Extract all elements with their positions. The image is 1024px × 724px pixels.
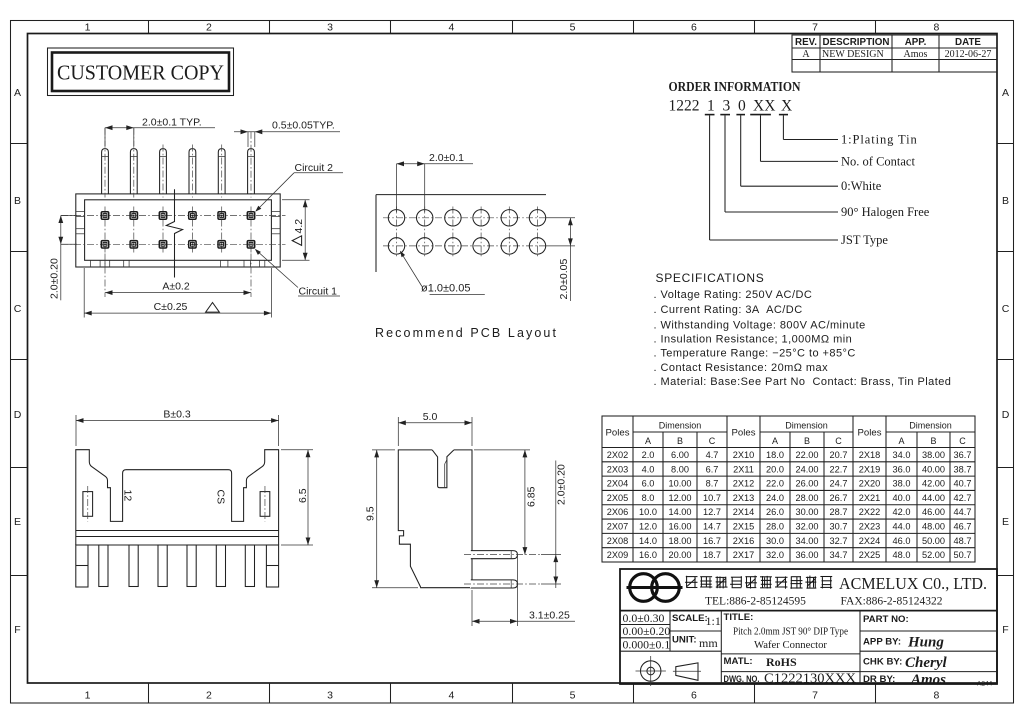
svg-text:28.7: 28.7 xyxy=(830,507,848,517)
svg-text:C1222130XXX: C1222130XXX xyxy=(764,671,857,686)
svg-text:2X16: 2X16 xyxy=(733,536,754,546)
svg-text:48.7: 48.7 xyxy=(954,536,972,546)
svg-text:38.00: 38.00 xyxy=(922,450,945,460)
svg-text:1: 1 xyxy=(85,22,91,34)
svg-text:2X15: 2X15 xyxy=(733,522,754,532)
company chinese name (pseudo glyph strokes) xyxy=(685,576,697,588)
svg-text:52.00: 52.00 xyxy=(922,550,945,560)
top view: connector body outer outline xyxy=(76,194,280,267)
top view: bottom edge notches xyxy=(89,260,91,267)
svg-text:Recommend PCB Layout: Recommend PCB Layout xyxy=(375,326,558,340)
triangle symbol for 4.2 xyxy=(292,236,301,246)
svg-text:32.7: 32.7 xyxy=(830,536,848,546)
svg-text:FAX:886-2-85124322: FAX:886-2-85124322 xyxy=(841,596,943,608)
svg-text:TITLE:: TITLE: xyxy=(724,612,754,623)
svg-text:3: 3 xyxy=(327,22,333,34)
svg-text:0.000±0.1: 0.000±0.1 xyxy=(623,638,671,652)
company logo: two overlapping circles xyxy=(630,574,658,602)
svg-text:1:1: 1:1 xyxy=(706,614,721,628)
svg-text:9.5: 9.5 xyxy=(365,506,377,521)
svg-text:2X14: 2X14 xyxy=(733,507,754,517)
svg-text:Poles: Poles xyxy=(858,427,882,438)
svg-text:2X03: 2X03 xyxy=(607,464,628,474)
top view: break line zigzag xyxy=(166,189,182,277)
svg-text:22.7: 22.7 xyxy=(830,464,848,474)
top view: left wall latch slot ticks xyxy=(76,210,85,212)
border zone column ticks top xyxy=(148,20,150,33)
svg-text:B: B xyxy=(14,195,21,207)
svg-text:APP BY:: APP BY: xyxy=(863,636,901,647)
pcb layout: 12 drill holes xyxy=(388,210,404,226)
dimension 2.0±0.20 (row spacing, left) xyxy=(60,216,62,301)
svg-text:0: 0 xyxy=(738,98,746,115)
svg-text:1:Plating Tin: 1:Plating Tin xyxy=(841,133,918,147)
svg-text:X: X xyxy=(781,98,792,115)
svg-text:44.00: 44.00 xyxy=(922,493,945,503)
svg-text:ORDER INFORMATION: ORDER INFORMATION xyxy=(669,79,801,94)
svg-text:22.00: 22.00 xyxy=(796,450,819,460)
title block outer frame xyxy=(620,569,997,684)
svg-text:32.0: 32.0 xyxy=(766,550,784,560)
svg-text:A±0.2: A±0.2 xyxy=(162,281,190,293)
svg-text:B: B xyxy=(677,436,683,446)
svg-text:8: 8 xyxy=(933,22,939,34)
svg-text:. Withstanding Voltage: 800V A: . Withstanding Voltage: 800V AC/minute xyxy=(654,320,866,332)
svg-text:12.0: 12.0 xyxy=(639,522,657,532)
svg-text:44.0: 44.0 xyxy=(893,522,911,532)
svg-text:30.0: 30.0 xyxy=(766,536,784,546)
svg-text:2X12: 2X12 xyxy=(733,479,754,489)
svg-text:42.7: 42.7 xyxy=(954,493,972,503)
svg-text:2X19: 2X19 xyxy=(859,464,880,474)
svg-text:18.00: 18.00 xyxy=(669,536,692,546)
svg-text:46.7: 46.7 xyxy=(954,522,972,532)
front view: left mount boss xyxy=(76,545,88,587)
svg-text:24.00: 24.00 xyxy=(796,464,819,474)
svg-text:D: D xyxy=(1002,409,1010,421)
border zone column ticks bottom xyxy=(148,683,150,703)
svg-text:10.00: 10.00 xyxy=(669,479,692,489)
svg-text:2X21: 2X21 xyxy=(859,493,880,503)
svg-text:20.7: 20.7 xyxy=(830,450,848,460)
svg-text:E: E xyxy=(1002,516,1009,528)
svg-text:Amos: Amos xyxy=(910,672,946,688)
svg-text:B: B xyxy=(804,436,810,446)
svg-text:C: C xyxy=(709,436,716,446)
svg-text:3: 3 xyxy=(723,98,731,115)
svg-text:2X06: 2X06 xyxy=(607,507,628,517)
border zone row ticks left xyxy=(10,143,27,145)
svg-text:5.0: 5.0 xyxy=(423,411,438,423)
svg-text:CHK BY:: CHK BY: xyxy=(863,657,902,668)
svg-text:34.7: 34.7 xyxy=(830,550,848,560)
side view: body profile outline xyxy=(398,450,472,588)
svg-text:C±0.25: C±0.25 xyxy=(154,301,188,313)
title block grid lines xyxy=(620,610,997,612)
dimension C±0.25 xyxy=(84,312,271,314)
svg-text:XX: XX xyxy=(753,98,775,115)
svg-text:50.00: 50.00 xyxy=(922,536,945,546)
svg-text:12: 12 xyxy=(122,490,134,502)
svg-text:B: B xyxy=(1002,195,1009,207)
svg-text:50.7: 50.7 xyxy=(954,550,972,560)
svg-text:Cheryl: Cheryl xyxy=(905,655,948,671)
side view: latch slot xyxy=(432,450,454,488)
svg-text:B: B xyxy=(930,436,936,446)
svg-text:A: A xyxy=(14,87,21,99)
svg-text:24.0: 24.0 xyxy=(766,493,784,503)
svg-text:46.0: 46.0 xyxy=(893,536,911,546)
svg-text:6.0: 6.0 xyxy=(642,479,655,489)
svg-text:2X20: 2X20 xyxy=(859,479,880,489)
side view: upper pin xyxy=(470,551,518,559)
svg-text:A244: A244 xyxy=(977,681,993,688)
svg-text:0.00±0.20: 0.00±0.20 xyxy=(623,624,671,638)
svg-text:A: A xyxy=(898,436,904,446)
svg-text:8: 8 xyxy=(933,690,939,702)
svg-text:3.1±0.25: 3.1±0.25 xyxy=(529,610,570,622)
svg-text:2012-06-27: 2012-06-27 xyxy=(945,49,992,60)
svg-text:SPECIFICATIONS: SPECIFICATIONS xyxy=(656,271,765,285)
dimension 5.0 (side width) xyxy=(398,422,472,424)
svg-text:7: 7 xyxy=(812,690,818,702)
callout line: 1 -> JST Type xyxy=(709,115,711,240)
svg-text:. Insulation Resistance; 1,000: . Insulation Resistance; 1,000MΩ min xyxy=(654,334,853,346)
svg-text:26.7: 26.7 xyxy=(830,493,848,503)
svg-text:2: 2 xyxy=(206,22,212,34)
svg-text:Dimension: Dimension xyxy=(785,420,828,430)
svg-text:40.7: 40.7 xyxy=(954,479,972,489)
svg-text:42.00: 42.00 xyxy=(922,479,945,489)
svg-text:A: A xyxy=(1002,87,1009,99)
callout line: 0 -> 0:White xyxy=(740,115,742,186)
svg-text:JST Type: JST Type xyxy=(841,233,888,247)
svg-text:. Contact Resistance: 20mΩ max: . Contact Resistance: 20mΩ max xyxy=(654,362,829,374)
svg-text:6.00: 6.00 xyxy=(671,450,689,460)
underlines under digits xyxy=(705,114,715,116)
top view: pin centerlines xyxy=(104,128,106,198)
svg-text:. Voltage Rating: 250V AC/DC: . Voltage Rating: 250V AC/DC xyxy=(654,289,813,301)
warning triangle symbol after C±0.25 xyxy=(206,303,220,313)
svg-text:C: C xyxy=(835,436,842,446)
svg-text:NEW DESIGN: NEW DESIGN xyxy=(822,49,884,60)
svg-text:0:White: 0:White xyxy=(841,179,882,193)
svg-text:ø1.0±0.05: ø1.0±0.05 xyxy=(421,283,470,295)
svg-text:REV.: REV. xyxy=(795,37,817,48)
svg-text:2.0±0.05: 2.0±0.05 xyxy=(558,259,570,300)
svg-text:8.0: 8.0 xyxy=(642,493,655,503)
svg-text:DR BY:: DR BY: xyxy=(863,674,895,685)
svg-text:28.00: 28.00 xyxy=(796,493,819,503)
svg-text:Poles: Poles xyxy=(606,427,630,438)
svg-text:10.7: 10.7 xyxy=(703,493,721,503)
svg-text:48.0: 48.0 xyxy=(893,550,911,560)
pcb layout: hole column centerlines xyxy=(396,207,398,259)
callout line: 3 -> 90 Halogen Free xyxy=(724,115,726,212)
svg-text:2X04: 2X04 xyxy=(607,479,628,489)
poles dimension table grid xyxy=(602,416,975,562)
border zone row ticks right xyxy=(997,143,1014,145)
svg-text:0.0±0.30: 0.0±0.30 xyxy=(623,611,665,625)
svg-text:CS: CS xyxy=(215,490,227,505)
svg-text:5: 5 xyxy=(570,22,576,34)
svg-text:. Current Rating: 3A AC/DC: . Current Rating: 3A AC/DC xyxy=(654,304,803,316)
svg-text:2X18: 2X18 xyxy=(859,450,880,460)
svg-text:36.7: 36.7 xyxy=(954,450,972,460)
dimension B±0.3 xyxy=(76,420,279,422)
svg-text:6.7: 6.7 xyxy=(706,464,719,474)
svg-text:34.00: 34.00 xyxy=(796,536,819,546)
svg-text:6.85: 6.85 xyxy=(526,486,538,507)
svg-text:10.0: 10.0 xyxy=(639,507,657,517)
svg-text:. Temperature Range: −25°C to: . Temperature Range: −25°C to +85°C xyxy=(654,348,856,360)
svg-text:A: A xyxy=(772,436,778,446)
svg-text:D: D xyxy=(14,409,22,421)
callout line: X -> 1:Plating Tin xyxy=(782,115,784,139)
dimension 6.85 xyxy=(474,449,530,451)
svg-text:Amos: Amos xyxy=(904,49,928,60)
dimension A±0.2 xyxy=(105,292,251,294)
svg-text:16.7: 16.7 xyxy=(703,536,721,546)
svg-text:E: E xyxy=(14,516,21,528)
svg-text:ACMELUX C0., LTD.: ACMELUX C0., LTD. xyxy=(839,574,987,593)
svg-text:Pitch 2.0mm JST 90° DIP Type: Pitch 2.0mm JST 90° DIP Type xyxy=(733,626,848,638)
dimension 6.5 (front height) xyxy=(281,449,313,451)
svg-text:2X10: 2X10 xyxy=(733,450,754,460)
top view: connector body inner outline xyxy=(85,200,272,260)
svg-text:38.7: 38.7 xyxy=(954,464,972,474)
svg-text:1: 1 xyxy=(707,98,715,115)
svg-text:48.00: 48.00 xyxy=(922,522,945,532)
svg-text:4.7: 4.7 xyxy=(706,450,719,460)
svg-text:14.7: 14.7 xyxy=(703,522,721,532)
svg-text:14.00: 14.00 xyxy=(669,507,692,517)
svg-text:Wafer Connector: Wafer Connector xyxy=(754,639,827,651)
svg-text:2X25: 2X25 xyxy=(859,550,880,560)
svg-text:2X23: 2X23 xyxy=(859,522,880,532)
svg-text:46.00: 46.00 xyxy=(922,507,945,517)
svg-text:2.0±0.1 TYP.: 2.0±0.1 TYP. xyxy=(142,116,202,128)
front view: right mount boss xyxy=(266,545,278,587)
svg-text:B±0.3: B±0.3 xyxy=(163,409,191,421)
svg-text:A: A xyxy=(802,49,810,60)
svg-text:20.00: 20.00 xyxy=(669,550,692,560)
svg-text:. Material: Base:See Part No: . Material: Base:See Part No Contact: Br… xyxy=(654,376,952,388)
svg-text:22.0: 22.0 xyxy=(766,479,784,489)
front view: body profile outline xyxy=(76,450,279,531)
CUSTOMER COPY stamp box xyxy=(48,48,234,96)
svg-text:90° Halogen Free: 90° Halogen Free xyxy=(841,205,930,219)
svg-text:4: 4 xyxy=(448,22,454,34)
svg-text:APP.: APP. xyxy=(905,37,927,48)
svg-text:C: C xyxy=(14,303,22,315)
svg-text:6: 6 xyxy=(691,22,697,34)
projection symbol: crosshair circle xyxy=(641,661,661,681)
svg-text:2.0: 2.0 xyxy=(642,450,655,460)
dimension 2.0±0.1 TYP (pin pitch) xyxy=(105,127,215,129)
dimension 4.2 (body height, right) xyxy=(282,199,310,201)
svg-text:2X09: 2X09 xyxy=(607,550,628,560)
projection symbol: cone xyxy=(676,663,698,680)
svg-text:1: 1 xyxy=(85,690,91,702)
svg-text:0.5±0.05TYP.: 0.5±0.05TYP. xyxy=(272,120,335,132)
svg-text:2.0±0.20: 2.0±0.20 xyxy=(49,258,61,299)
svg-text:28.0: 28.0 xyxy=(766,522,784,532)
callout line: XX -> No. of Contact xyxy=(760,115,762,161)
svg-text:2X24: 2X24 xyxy=(859,536,880,546)
pcb dimension 2.0±0.05 (vertical) xyxy=(546,217,575,219)
svg-text:8.00: 8.00 xyxy=(671,464,689,474)
svg-text:40.0: 40.0 xyxy=(893,493,911,503)
svg-text:2X11: 2X11 xyxy=(733,464,754,474)
svg-text:Poles: Poles xyxy=(732,427,756,438)
svg-text:18.7: 18.7 xyxy=(703,550,721,560)
svg-text:PART NO:: PART NO: xyxy=(863,614,909,625)
svg-text:3: 3 xyxy=(327,690,333,702)
svg-text:18.0: 18.0 xyxy=(766,450,784,460)
svg-text:F: F xyxy=(14,624,20,636)
svg-text:2X22: 2X22 xyxy=(859,507,880,517)
svg-text:38.0: 38.0 xyxy=(893,479,911,489)
top view: contact column centerlines xyxy=(104,207,106,254)
svg-text:5: 5 xyxy=(570,690,576,702)
svg-text:TEL:886-2-85124595: TEL:886-2-85124595 xyxy=(705,596,806,608)
svg-text:2X13: 2X13 xyxy=(733,493,754,503)
svg-text:24.7: 24.7 xyxy=(830,479,848,489)
top view: contact row centerlines xyxy=(61,215,286,217)
pcb layout: board corner outline xyxy=(376,194,546,196)
svg-text:16.00: 16.00 xyxy=(669,522,692,532)
svg-text:UNIT:: UNIT: xyxy=(672,634,697,645)
svg-text:Circuit 2: Circuit 2 xyxy=(295,162,334,174)
top view: six pins above body xyxy=(102,149,109,194)
front view: left pin silhouette rect xyxy=(83,492,93,517)
svg-text:26.00: 26.00 xyxy=(796,479,819,489)
svg-text:40.00: 40.00 xyxy=(922,464,945,474)
side view: lower pin xyxy=(470,580,518,588)
svg-text:4.2: 4.2 xyxy=(293,219,305,234)
svg-text:mm: mm xyxy=(699,636,718,650)
svg-text:DWG. NO.: DWG. NO. xyxy=(724,674,760,684)
svg-text:F: F xyxy=(1002,624,1008,636)
svg-text:16.0: 16.0 xyxy=(639,550,657,560)
front view: right pin silhouette rect xyxy=(260,492,270,517)
svg-text:Hung: Hung xyxy=(907,635,944,651)
svg-text:26.0: 26.0 xyxy=(766,507,784,517)
svg-text:Dimension: Dimension xyxy=(909,420,952,430)
svg-text:4: 4 xyxy=(448,690,454,702)
svg-text:2X02: 2X02 xyxy=(607,450,628,460)
svg-text:CUSTOMER COPY: CUSTOMER COPY xyxy=(57,61,224,85)
svg-text:2.0±0.20: 2.0±0.20 xyxy=(556,464,568,505)
svg-text:32.00: 32.00 xyxy=(796,522,819,532)
svg-text:6: 6 xyxy=(691,690,697,702)
svg-text:Dimension: Dimension xyxy=(659,420,702,430)
svg-text:14.0: 14.0 xyxy=(639,536,657,546)
svg-text:44.7: 44.7 xyxy=(954,507,972,517)
svg-text:8.7: 8.7 xyxy=(706,479,719,489)
svg-text:2X07: 2X07 xyxy=(607,522,628,532)
svg-text:30.00: 30.00 xyxy=(796,507,819,517)
svg-text:No. of Contact: No. of Contact xyxy=(841,154,915,168)
top view: square contacts 2 rows xyxy=(101,212,108,219)
svg-text:36.0: 36.0 xyxy=(893,464,911,474)
svg-text:6.5: 6.5 xyxy=(297,488,309,503)
svg-text:7: 7 xyxy=(812,22,818,34)
svg-text:36.00: 36.00 xyxy=(796,550,819,560)
revision table xyxy=(792,35,997,72)
svg-text:2: 2 xyxy=(206,690,212,702)
svg-text:MATL:: MATL: xyxy=(724,656,753,667)
front view: base band lines xyxy=(76,530,279,532)
svg-text:12.00: 12.00 xyxy=(669,493,692,503)
svg-text:C: C xyxy=(1002,303,1010,315)
svg-text:42.0: 42.0 xyxy=(893,507,911,517)
svg-text:20.0: 20.0 xyxy=(766,464,784,474)
svg-text:1222: 1222 xyxy=(669,98,700,115)
svg-text:2X05: 2X05 xyxy=(607,493,628,503)
svg-text:34.0: 34.0 xyxy=(893,450,911,460)
dimension 0.5±0.05 TYP (pin width) xyxy=(234,131,340,133)
front view: six solder legs xyxy=(99,545,108,587)
svg-text:DATE: DATE xyxy=(955,37,981,48)
dimension 2.0±0.20 (pin spacing, side) xyxy=(541,554,561,556)
svg-text:4.0: 4.0 xyxy=(642,464,655,474)
svg-text:2X17: 2X17 xyxy=(733,550,754,560)
svg-text:A: A xyxy=(645,436,651,446)
svg-text:30.7: 30.7 xyxy=(830,522,848,532)
svg-text:DESCRIPTION: DESCRIPTION xyxy=(823,37,890,48)
pcb layout: hole row centerlines xyxy=(383,217,547,219)
pcb dimension 2.0±0.1 xyxy=(397,163,474,165)
dimension 9.5 (side height) xyxy=(372,449,395,451)
svg-text:SCALE:: SCALE: xyxy=(672,613,708,624)
svg-text:12.7: 12.7 xyxy=(703,507,721,517)
dimension 3.1±0.25 xyxy=(471,590,473,626)
svg-text:C: C xyxy=(959,436,966,446)
svg-text:2.0±0.1: 2.0±0.1 xyxy=(429,152,464,164)
svg-text:2X08: 2X08 xyxy=(607,536,628,546)
top view: right wall latch slot ticks xyxy=(271,210,280,212)
svg-text:RoHS: RoHS xyxy=(766,655,797,669)
